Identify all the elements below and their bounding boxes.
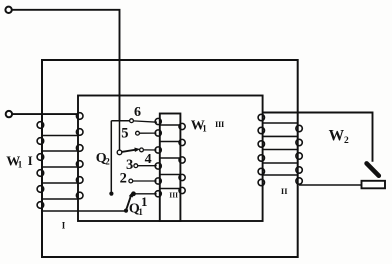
wire: contact 3 to winding tap — [138, 165, 157, 167]
wire: feed down to Q2 pivot — [119, 121, 121, 151]
wire: terminal A right then down to tap selector feed — [12, 10, 120, 121]
svg-text:5: 5 — [121, 125, 128, 141]
wire: contact 1 to winding tap — [135, 193, 156, 195]
node: stub junction dot — [109, 192, 113, 196]
svg-text:1: 1 — [202, 124, 207, 134]
svg-text:I: I — [62, 221, 66, 231]
winding W1 III (middle limb, tapped) — [155, 118, 185, 196]
switch Q2 arm (to contact 4) — [122, 150, 137, 152]
svg-text:2: 2 — [344, 136, 349, 146]
contact 4 — [140, 148, 144, 152]
svg-text:II: II — [281, 186, 288, 196]
wire: contact 6 to winding tap — [133, 121, 157, 122]
svg-text:4: 4 — [145, 152, 152, 167]
wire: contact 5 to winding tap — [139, 132, 156, 134]
terminal B (left input) — [6, 111, 12, 117]
core window opening — [78, 96, 263, 222]
svg-text:I: I — [28, 154, 33, 168]
contact 2 — [129, 179, 133, 183]
wire: contact 4 to winding tap — [143, 149, 156, 151]
switch Q2 pivot — [117, 150, 122, 155]
svg-text:III: III — [169, 191, 178, 200]
electrode (thick blade) — [367, 163, 379, 175]
switch Q1 arm (to contact 1) — [126, 196, 131, 211]
svg-text:1: 1 — [138, 207, 143, 217]
switch Q1 pivot — [124, 209, 128, 213]
contact 6 — [130, 119, 134, 123]
wire: contact 2 to winding tap — [133, 180, 157, 182]
contact 3 — [134, 164, 138, 168]
contact 1 — [132, 192, 136, 196]
svg-text:2: 2 — [120, 171, 127, 187]
svg-text:2: 2 — [105, 157, 110, 167]
wire: W2 bottom to workpiece — [299, 184, 362, 186]
winding W1 I (left limb) — [37, 113, 83, 209]
wire: terminal B to winding W1 I top — [12, 113, 78, 115]
svg-text:3: 3 — [126, 157, 133, 173]
svg-text:1: 1 — [18, 159, 23, 169]
svg-text:6: 6 — [134, 105, 141, 120]
wire: W2 top to electrode holder — [263, 113, 373, 162]
wire: branch down to stub node — [110, 121, 112, 192]
workpiece box — [362, 181, 386, 189]
wire: feed bus at junction (to contact 6 and branches) — [111, 120, 129, 122]
wire: winding W1 I bottom to Q1 pivot — [42, 210, 125, 212]
svg-text:III: III — [215, 119, 225, 129]
core outer outline — [42, 60, 298, 257]
contact 5 — [136, 131, 140, 135]
winding W2 II (right limb) — [258, 114, 302, 185]
svg-text:W: W — [329, 128, 345, 145]
terminal A (top-left input) — [5, 7, 11, 13]
core middle limb — [160, 114, 181, 222]
